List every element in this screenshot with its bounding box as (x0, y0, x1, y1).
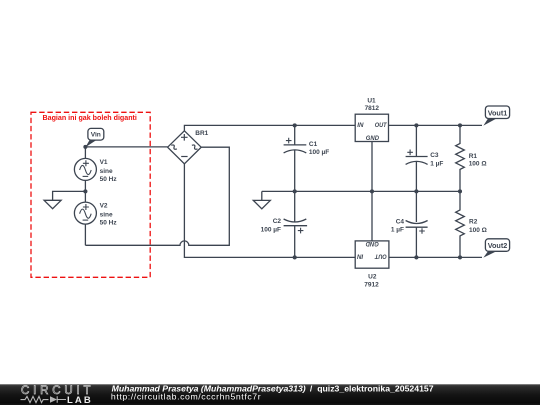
svg-text:U1: U1 (367, 97, 376, 104)
svg-text:100 Ω: 100 Ω (469, 161, 487, 168)
svg-text:50 Hz: 50 Hz (100, 176, 118, 183)
svg-text:C3: C3 (430, 152, 439, 159)
svg-text:C2: C2 (273, 218, 282, 225)
svg-text:OUT: OUT (375, 122, 388, 129)
svg-text:Vout2: Vout2 (488, 241, 508, 250)
svg-text:LAB: LAB (67, 395, 91, 405)
svg-text:Vin: Vin (91, 132, 101, 139)
svg-text:V1: V1 (100, 159, 108, 166)
svg-text:GND: GND (366, 135, 380, 142)
svg-text:R2: R2 (469, 218, 478, 225)
svg-text:C1: C1 (309, 141, 318, 148)
svg-text:IN: IN (357, 252, 364, 259)
svg-text:100 Ω: 100 Ω (469, 227, 487, 234)
svg-text:Vout1: Vout1 (488, 108, 508, 117)
svg-text:Bagian ini gak boleh diganti: Bagian ini gak boleh diganti (43, 113, 137, 122)
svg-text:7912: 7912 (364, 281, 379, 288)
svg-text:100 µF: 100 µF (261, 227, 281, 234)
svg-text:BR1: BR1 (195, 130, 208, 137)
svg-text:http://circuitlab.com/cccrhn5n: http://circuitlab.com/cccrhn5ntfc7r (111, 392, 261, 402)
svg-text:sine: sine (100, 168, 113, 175)
svg-text:R1: R1 (469, 153, 478, 160)
svg-text:V2: V2 (100, 203, 108, 210)
svg-text:OUT: OUT (374, 252, 387, 259)
svg-text:sine: sine (100, 212, 113, 219)
svg-text:1 µF: 1 µF (391, 227, 404, 234)
svg-text:C4: C4 (396, 218, 405, 225)
svg-text:U2: U2 (368, 274, 377, 281)
svg-text:quiz3_elektronika_20524157: quiz3_elektronika_20524157 (317, 384, 434, 394)
svg-text:IN: IN (357, 122, 364, 129)
svg-text:GND: GND (365, 240, 379, 247)
svg-text:50 Hz: 50 Hz (100, 220, 118, 227)
svg-text:1 µF: 1 µF (430, 160, 443, 167)
svg-text:100 µF: 100 µF (309, 149, 329, 156)
svg-text:7812: 7812 (365, 105, 380, 112)
